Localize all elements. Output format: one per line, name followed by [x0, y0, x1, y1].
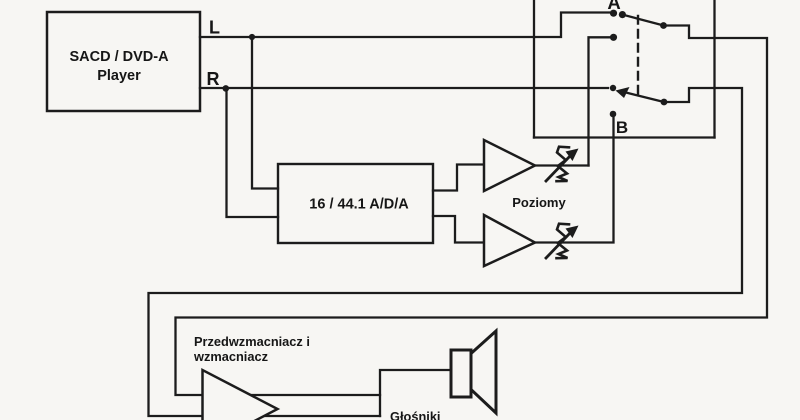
wire: speaker feed riser and lead [380, 370, 450, 416]
node: lower lever pivot [661, 99, 668, 106]
switch lever lower [626, 93, 664, 103]
svg-text:R: R [207, 69, 220, 89]
wire: L junction down to A/D/A input [252, 37, 278, 189]
wire: U3 output to switch contact [535, 164, 589, 166]
svg-text:L: L [209, 18, 220, 38]
svg-text:B: B [616, 118, 628, 137]
wire: R output from player to switch arrow contact [200, 87, 608, 89]
amplifier U5: preamp/power amp triangle [203, 370, 278, 420]
speaker LS1 [451, 331, 496, 413]
switch lever upper [622, 15, 663, 26]
op-amp U3: upper buffer triangle [484, 140, 535, 191]
wire: A/D/A lower output to buffer U4 [433, 216, 484, 243]
wire: R junction down to A/D/A input [227, 88, 279, 217]
svg-text:Poziomy: Poziomy [512, 195, 566, 210]
wire: upper pole out to preamp (long loop) [176, 26, 768, 396]
node: R junction [223, 85, 230, 92]
wire: U4 output to node B riser [535, 118, 614, 243]
dashed mechanical link [637, 16, 639, 95]
op-amp U4: lower buffer triangle [484, 215, 535, 266]
svg-text:Player: Player [97, 68, 141, 84]
svg-text:Przedwzmacniacz i: Przedwzmacniacz i [194, 334, 310, 349]
svg-text:16 / 44.1 A/D/A: 16 / 44.1 A/D/A [309, 197, 409, 213]
node: contact from U3 [610, 34, 617, 41]
label preamp: Przedwzmacniacz i wzmacniacz [193, 334, 310, 364]
resistor R2: lower level control (arrow + squiggle) [546, 224, 579, 259]
svg-text:Głośniki: Głośniki [390, 409, 441, 420]
resistor R1: upper level control (arrow + squiggle) [546, 147, 579, 182]
wire: lower pole out to preamp (long loop) [149, 88, 743, 416]
switch box S1 [534, 0, 715, 138]
node: L junction [249, 34, 255, 40]
player U1: SACD / DVD-A Player box [47, 12, 200, 111]
node B [610, 111, 617, 118]
node A: double contact dots [610, 10, 626, 19]
node: arrow contact on R wire [610, 85, 630, 98]
svg-text:wzmacniacz: wzmacniacz [193, 349, 268, 364]
wire: A/D/A upper output to buffer U3 [433, 165, 484, 191]
node: upper lever pivot [660, 22, 667, 29]
svg-text:SACD / DVD-A: SACD / DVD-A [69, 49, 169, 65]
wire: L output from player to switch contact A [200, 13, 611, 38]
converter U2: 16 / 44.1 A/D/A box [278, 164, 433, 243]
wire: contact to U3 output riser [589, 37, 614, 165]
